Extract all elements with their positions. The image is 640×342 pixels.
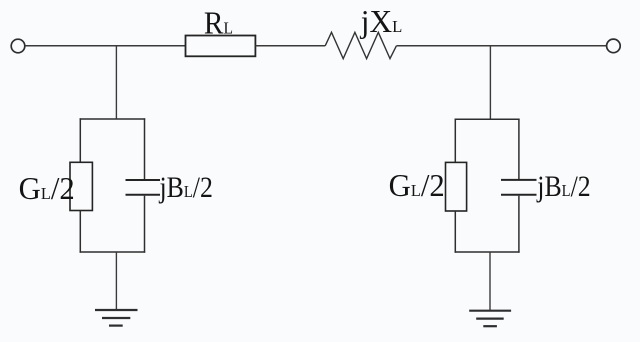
- node: left shunt bottom bus: [80, 251, 146, 253]
- wire between resistor and inductor: [255, 45, 325, 47]
- wire: left shunt right side lower: [144, 196, 146, 253]
- terminal (port) left: [11, 39, 25, 53]
- wire top-left: left terminal to resistor: [25, 45, 185, 47]
- resistor RL (series box): [186, 36, 256, 57]
- wire: right junction drop: [489, 46, 491, 120]
- wire: right shunt right side upper: [518, 119, 520, 179]
- capacitor jBL/2 (right) : top plate: [501, 179, 537, 181]
- inductor / reactance jXL (zigzag): [325, 32, 396, 58]
- wire: left shunt right side upper: [144, 118, 146, 179]
- wire inductor to right terminal: [396, 45, 606, 47]
- wire: right shunt right side lower: [518, 196, 520, 253]
- conductance GL/2 box (right): [446, 162, 467, 211]
- node: right shunt bottom bus: [455, 251, 520, 253]
- node: right shunt top bus: [455, 118, 520, 120]
- wire: right shunt left side lower: [454, 211, 456, 253]
- ground (right): [469, 311, 511, 327]
- wire: right ground tap: [489, 252, 491, 311]
- wire: right shunt left side upper: [454, 119, 456, 163]
- wire: left shunt left side upper: [79, 118, 81, 162]
- wire: left ground tap: [115, 252, 117, 310]
- capacitor jBL/2 (right) : bottom plate: [501, 194, 537, 196]
- capacitor jBL/2 (left) : bottom plate: [126, 194, 161, 196]
- capacitor jBL/2 (left) : top plate: [126, 179, 161, 181]
- wire: left shunt left side lower: [79, 211, 81, 253]
- node: left shunt top bus: [80, 118, 146, 120]
- wire: left junction drop: [115, 46, 117, 119]
- conductance GL/2 box (left): [70, 162, 92, 210]
- ground (left): [95, 310, 138, 326]
- terminal (port) right: [607, 39, 621, 53]
